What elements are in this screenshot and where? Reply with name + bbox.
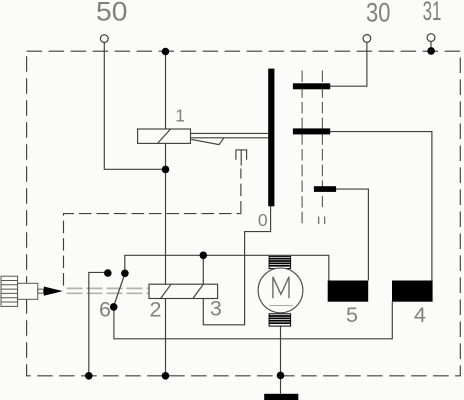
svg-text:50: 50 — [96, 0, 127, 27]
svg-text:4: 4 — [414, 303, 426, 327]
svg-text:3: 3 — [210, 297, 222, 321]
svg-text:5: 5 — [346, 303, 358, 327]
svg-text:2: 2 — [150, 298, 162, 322]
svg-text:30: 30 — [366, 0, 390, 27]
svg-text:0: 0 — [258, 210, 268, 230]
svg-text:6: 6 — [99, 298, 111, 322]
svg-text:31: 31 — [423, 0, 442, 26]
svg-text:1: 1 — [175, 106, 185, 126]
